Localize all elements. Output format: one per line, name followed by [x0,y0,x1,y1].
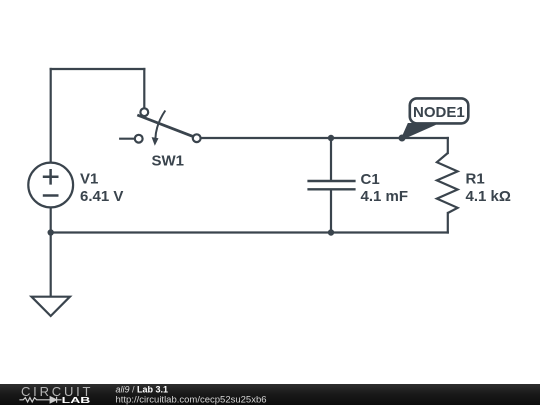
voltage source V1 [28,163,73,208]
footer bar [0,384,540,405]
svg-text:ali9 / Lab 3.1: ali9 / Lab 3.1 [116,384,169,394]
wire capacitor bottom vertical [330,190,332,233]
wire V1 top vertical [50,69,52,162]
svg-text:NODE1: NODE1 [413,104,465,121]
resistor R1 [437,153,458,213]
wire switch left stub [120,138,134,140]
svg-text:4.1 kΩ: 4.1 kΩ [466,188,511,205]
wire bottom horizontal [51,231,448,233]
wire resistor top vertical [447,138,449,153]
wire capacitor top vertical [330,138,332,180]
capacitor C1 [307,181,355,189]
ground symbol [32,297,70,316]
wire V1 bottom vertical [50,209,52,233]
svg-text:V1: V1 [80,171,98,188]
svg-text:LAB: LAB [62,395,91,405]
switch SW1 [135,108,201,145]
node NODE1 flag tail [402,124,435,139]
node NODE1 flag box [410,98,469,123]
svg-text:R1: R1 [466,171,485,188]
wire ground vertical [50,233,52,297]
junction dot at NODE1 [399,135,406,142]
svg-text:6.41 V: 6.41 V [80,188,123,205]
wire top horizontal [51,68,145,70]
svg-text:http://circuitlab.com/cecp52su: http://circuitlab.com/cecp52su25xb6 [116,394,267,405]
footer logo squiggle [19,398,61,402]
footer logo diode [50,397,56,403]
wire main horizontal [201,137,447,139]
svg-text:4.1 mF: 4.1 mF [361,188,409,205]
junction dot at capacitor top [328,135,334,141]
wire resistor bottom vertical [447,213,449,233]
junction dot at V1 bottom [48,229,54,235]
junction dot at capacitor bottom [328,229,334,235]
svg-text:SW1: SW1 [152,153,185,170]
wire switch top vertical [143,69,145,108]
svg-text:C1: C1 [361,171,380,188]
